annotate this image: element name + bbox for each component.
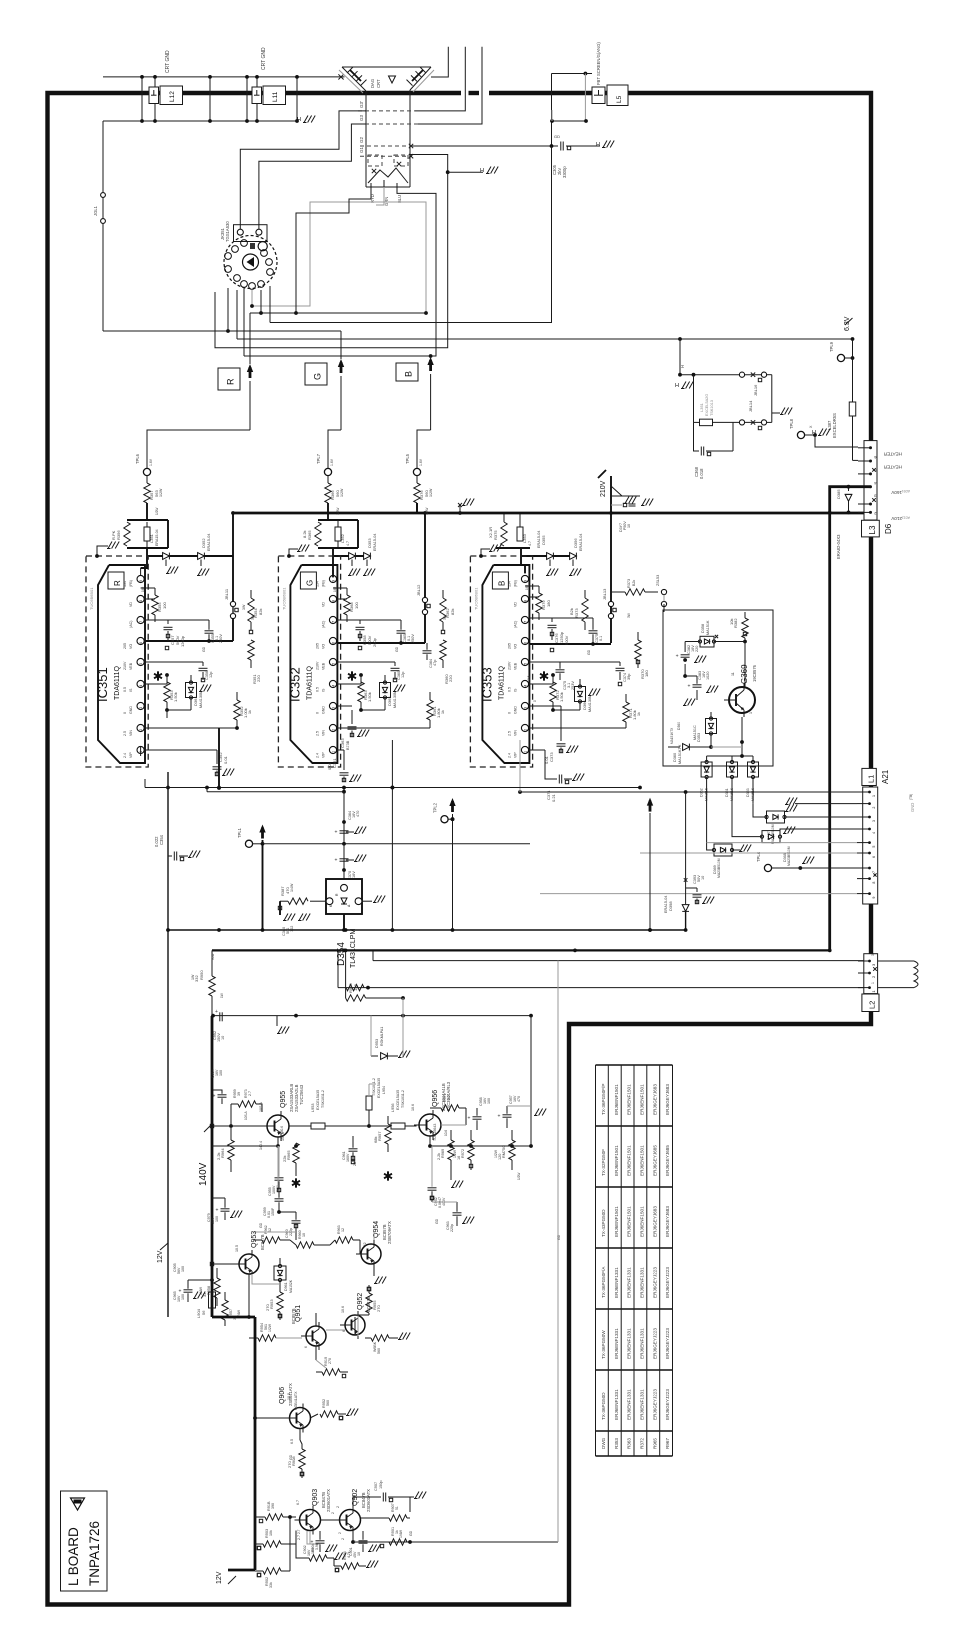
svg-text:ERJ6GEYJ223: ERJ6GEYJ223 (665, 1328, 670, 1359)
svg-text:TDA6111Q: TDA6111Q (498, 665, 505, 700)
A21 pin6 wire (640, 852, 857, 854)
svg-text:ERJ6ENF1501: ERJ6ENF1501 (627, 1084, 632, 1115)
svg-text:ERJ6GEYJ685: ERJ6GEYJ685 (665, 1145, 670, 1176)
svg-text:205: 205 (123, 643, 127, 649)
svg-text:Q955: Q955 (280, 1091, 287, 1108)
connector L1 box (862, 768, 876, 785)
L12 filter (141, 77, 143, 121)
svg-text:220: 220 (448, 675, 453, 682)
inductor L904 56 (209, 1292, 216, 1308)
IC352 pins (329, 575, 336, 582)
capacitor C368 0.018 (694, 422, 700, 451)
capacitor C372 (623, 503, 626, 506)
jumper ZR153 (661, 589, 666, 594)
resistor R382 10k (742, 618, 748, 638)
svg-text:7: 7 (332, 621, 336, 623)
svg-text:TPL4: TPL4 (756, 851, 761, 862)
svg-text:ERJ6GEYJ683: ERJ6GEYJ683 (652, 1206, 657, 1237)
A21 pin1 wire (520, 791, 857, 793)
svg-text:TUC6B6B01: TUC6B6B01 (89, 587, 94, 610)
capacitor C305 (552, 145, 559, 147)
svg-text:H: H (675, 383, 679, 389)
svg-text:EXCEL5A35: EXCEL5A35 (396, 1090, 400, 1110)
svg-text:8: 8 (524, 600, 528, 602)
diode pack D366g MA4130M (380, 683, 391, 698)
R amp peaking R356 L351 (127, 519, 168, 521)
svg-text:JBL14: JBL14 (748, 400, 753, 412)
wire D354 ref (343, 883, 345, 886)
left column wire x168 (167, 772, 169, 1317)
transistor Q956 (419, 1114, 441, 1136)
210V bus wire (233, 512, 871, 515)
svg-text:C373: C373 (549, 752, 554, 762)
shunt regulator D354 TL431CLPM (326, 879, 362, 914)
svg-text:0.21: 0.21 (551, 793, 556, 802)
svg-text:3: 3 (871, 954, 875, 956)
svg-text:100: 100 (181, 1266, 185, 1272)
svg-text:MA4130M: MA4130M (393, 691, 397, 708)
svg-text:6.3V: 6.3V (844, 316, 851, 331)
svg-text:ERJ6ENF1501: ERJ6ENF1501 (640, 1084, 645, 1115)
resistor R361 1.80k (337, 727, 430, 729)
svg-text:100: 100 (181, 1294, 185, 1300)
resistor R355 (152, 595, 158, 615)
resistor R357 (146, 476, 148, 483)
svg-text:D353: D353 (367, 538, 372, 548)
capacitor C357 (144, 619, 168, 621)
resistor R96B 560 (371, 1335, 389, 1341)
svg-text:RM75C: RM75C (502, 1145, 506, 1158)
svg-text:FBT SCREEN/G(ANG): FBT SCREEN/G(ANG) (596, 42, 601, 85)
svg-text:(AC): (AC) (321, 621, 325, 628)
video feed vertical x392 (391, 740, 393, 930)
svg-text:10.6: 10.6 (444, 1130, 448, 1136)
svg-text:R375: R375 (493, 530, 498, 540)
svg-text:JBL13: JBL13 (602, 588, 607, 600)
diode D353 ERA15-04 (333, 555, 367, 557)
svg-text:12p: 12p (401, 672, 405, 678)
svg-text:TPL8: TPL8 (789, 418, 794, 429)
svg-text:L11: L11 (272, 91, 279, 102)
svg-text:Q903: Q903 (312, 1489, 319, 1506)
svg-text:ERA15-04: ERA15-04 (207, 533, 211, 551)
svg-text:D365: D365 (387, 696, 392, 706)
svg-text:1.6V: 1.6V (149, 458, 153, 466)
transistor Q906 (290, 1408, 311, 1429)
svg-text:1k: 1k (637, 712, 641, 716)
svg-text:2SD601ATX: 2SD601ATX (366, 1489, 371, 1512)
svg-text:Q952: Q952 (357, 1293, 364, 1310)
wire VEB pin6 G (337, 642, 425, 644)
svg-text:MA4130M: MA4130M (199, 691, 203, 708)
resistor R91B 390 (265, 1514, 283, 1520)
svg-text:16: 16 (457, 1156, 461, 1160)
capacitor C965 (184, 1289, 193, 1291)
svg-text:1W: 1W (220, 993, 224, 998)
resistor R354 82k (248, 598, 254, 622)
svg-text:1k: 1k (441, 710, 445, 714)
svg-text:6: 6 (304, 1346, 308, 1348)
resistor R368 (344, 595, 350, 615)
svg-text:8: 8 (332, 600, 336, 602)
svg-text:GD: GD (587, 649, 591, 655)
svg-text:2SB709ATX: 2SB709ATX (387, 1221, 392, 1244)
svg-text:L954: L954 (382, 1086, 386, 1094)
svg-text:GND: GND (513, 706, 517, 714)
svg-text:D398: D398 (668, 901, 673, 911)
svg-text:102: 102 (290, 926, 294, 932)
op-amp IC351 body TDA6111Q (98, 565, 145, 763)
svg-text:7: 7 (872, 871, 876, 873)
svg-text:+: + (676, 654, 679, 660)
svg-text:MA152K: MA152K (289, 1279, 293, 1293)
svg-text:+: + (354, 1540, 357, 1546)
wire rail 843 (263, 843, 531, 845)
wire G1 return (215, 155, 448, 348)
cathode electrodes (368, 155, 382, 166)
svg-text:ERJ6ENF1501: ERJ6ENF1501 (640, 1206, 645, 1237)
diode pack D367 (765, 811, 786, 823)
capacitor C907 150p feedback (353, 1497, 381, 1509)
svg-text:L953: L953 (311, 1104, 315, 1112)
svg-text:TPL5: TPL5 (405, 453, 410, 464)
svg-text:JGL1: JGL1 (93, 205, 98, 216)
svg-text:VEB: VEB (129, 662, 133, 670)
wire R to TPL6 (147, 430, 250, 469)
resistor R954 (258, 1335, 276, 1341)
svg-text:205: 205 (507, 643, 511, 649)
svg-text:B2k: B2k (569, 608, 574, 615)
svg-text:G3: G3 (359, 114, 364, 121)
svg-text:EXCEL5A35: EXCEL5A35 (316, 1090, 320, 1110)
svg-text:EXCEL5A2G: EXCEL5A2G (705, 394, 709, 416)
svg-text:7: 7 (524, 621, 528, 623)
210V feed drop G (424, 513, 426, 643)
wire pin9 G out (332, 565, 334, 577)
svg-text:1: 1 (872, 795, 876, 797)
svg-text:R969: R969 (441, 1149, 445, 1158)
extra junction dots rails (217, 928, 221, 932)
svg-text:2.7: 2.7 (447, 1095, 451, 1100)
svg-text:MA151KTX: MA151KTX (670, 727, 674, 744)
svg-text:TPL7: TPL7 (316, 453, 321, 464)
test point TPL9 (837, 354, 844, 361)
ground top of IC353 (481, 549, 490, 556)
svg-text:G3': G3' (359, 101, 364, 108)
capacitor C375b (589, 630, 598, 632)
svg-text:150p: 150p (379, 1481, 383, 1489)
svg-text:TUC6B6B01: TUC6B6B01 (473, 587, 478, 610)
heater 6.3V line (237, 338, 853, 340)
svg-text:TX-36PG50D: TX-36PG50D (601, 1392, 606, 1420)
svg-text:100: 100 (354, 602, 359, 609)
svg-text:ERJ6GEYJ223: ERJ6GEYJ223 (652, 1328, 657, 1359)
svg-text:B: B (404, 371, 414, 377)
svg-text:TDA6111Q: TDA6111Q (306, 665, 313, 700)
test point 417 (413, 468, 420, 475)
svg-text:MA4130M: MA4130M (588, 695, 592, 712)
svg-text:210V: 210V (890, 516, 902, 521)
wire C960 to base rail (254, 1231, 296, 1233)
svg-text:X2.1R: X2.1R (488, 527, 493, 538)
svg-text:160V: 160V (346, 1153, 350, 1162)
svg-text:90W: 90W (211, 953, 215, 960)
diode D953 (371, 1055, 378, 1057)
svg-text:(FB): (FB) (129, 580, 133, 587)
capacitor C963 (453, 1212, 462, 1214)
rail 930 (168, 929, 686, 931)
svg-text:TSK1011-2: TSK1011-2 (372, 1078, 376, 1096)
resistor R964 (228, 1140, 234, 1160)
svg-text:ERA15-04: ERA15-04 (579, 533, 583, 551)
svg-text:VIP: VIP (321, 752, 325, 758)
resistor R908 270 (299, 1449, 305, 1469)
resistor R363 1.50k with select mark (348, 674, 356, 679)
svg-text:470: 470 (517, 1096, 521, 1102)
diode D355 D356 ERA15-04 (521, 555, 573, 557)
svg-text:6: 6 (342, 1330, 346, 1332)
svg-text:9: 9 (139, 580, 143, 582)
svg-text:D358: D358 (701, 624, 705, 633)
wire cathode R row (250, 312, 426, 314)
svg-text:120: 120 (498, 1154, 502, 1160)
svg-text:1/2W: 1/2W (429, 488, 433, 497)
heater feed lines (373, 960, 864, 962)
svg-text:1/2W: 1/2W (425, 508, 429, 515)
svg-text:L BOARD: L BOARD (66, 1527, 81, 1586)
svg-text:1.6V: 1.6V (330, 458, 334, 466)
thick link A21 to L2 (869, 904, 872, 954)
base network Q955 (212, 1125, 267, 1127)
svg-text:CRT: CRT (376, 79, 381, 88)
svg-text:12: 12 (363, 1242, 367, 1246)
svg-text:VO: VO (321, 644, 325, 649)
wire G to TPL7 (328, 430, 341, 469)
svg-text:8.2k: 8.2k (302, 530, 307, 538)
svg-text:IC351: IC351 (95, 667, 110, 702)
test point 328 (324, 468, 331, 475)
svg-text:0.01: 0.01 (327, 761, 332, 770)
svg-text:ERJ6ENF1331: ERJ6ENF1331 (614, 1389, 619, 1420)
svg-text:1W: 1W (191, 974, 195, 980)
CRT neck (365, 91, 367, 187)
diode D953b (369, 1083, 376, 1085)
svg-text:4: 4 (332, 685, 336, 687)
cap C364 16V 470 (343, 792, 345, 885)
svg-text:1.6V: 1.6V (419, 458, 423, 466)
svg-text:R365: R365 (307, 530, 312, 540)
svg-text:C361: C361 (332, 758, 337, 768)
svg-text:VEB: VEB (513, 662, 517, 670)
svg-text:6: 6 (524, 642, 528, 644)
svg-text:165: 165 (333, 586, 337, 592)
svg-text:Q951: Q951 (295, 1305, 302, 1322)
svg-text:VD: VD (129, 602, 133, 607)
svg-text:ERJ6ENF1331: ERJ6ENF1331 (627, 1328, 632, 1359)
resistor R905 (341, 1563, 359, 1569)
svg-text:ERJ6GEYJ683: ERJ6GEYJ683 (665, 1084, 670, 1115)
svg-text:100: 100 (487, 1098, 491, 1104)
svg-text:2.5: 2.5 (315, 731, 319, 736)
wire G2 screen path (412, 145, 552, 147)
svg-text:1/4W: 1/4W (290, 883, 294, 892)
wires driver column (248, 1274, 250, 1317)
svg-text:2.7: 2.7 (248, 1091, 252, 1096)
alternate parts table (596, 1064, 673, 1066)
svg-text:RGKMLPA1: RGKMLPA1 (380, 1027, 384, 1046)
svg-text:H: H (680, 365, 685, 368)
svg-text:220p: 220p (450, 1224, 454, 1232)
svg-text:ERA82-04X3: ERA82-04X3 (836, 534, 841, 559)
cap C370 16V (340, 858, 349, 860)
svg-text:82k: 82k (258, 609, 263, 615)
outline dash segment where CRT wires cross (469, 91, 480, 95)
svg-text:0.5: 0.5 (123, 687, 127, 692)
svg-text:1/2W: 1/2W (494, 1149, 498, 1158)
svg-text:210V: 210V (507, 661, 511, 670)
wire cathode B path (397, 187, 436, 356)
diode pack D353 MA151C (706, 719, 717, 734)
svg-text:Q906: Q906 (279, 1387, 286, 1404)
svg-text:GND: GND (910, 803, 915, 812)
grid G3 dashed (358, 123, 418, 125)
svg-text:ERJ6ENF1501: ERJ6ENF1501 (640, 1145, 645, 1176)
svg-text:GD: GD (435, 1218, 439, 1224)
heater and grid stubs to FBT (431, 47, 448, 77)
svg-text:L12: L12 (169, 91, 176, 102)
svg-text:134: 134 (315, 581, 319, 587)
svg-text:3: 3 (139, 707, 143, 709)
svg-text:R.PK: R.PK (111, 530, 116, 540)
wire 160V stub (830, 487, 871, 513)
cathode wire weave below socket (252, 202, 426, 313)
svg-text:C354: C354 (159, 834, 164, 845)
svg-text:47p: 47p (433, 660, 437, 666)
svg-text:560: 560 (377, 1348, 381, 1354)
svg-text:(AC): (AC) (513, 621, 517, 628)
svg-text:6: 6 (332, 642, 336, 644)
svg-text:(FB): (FB) (513, 580, 517, 587)
capacitor D365 47p (423, 650, 432, 652)
svg-text:9: 9 (524, 580, 528, 582)
svg-text:RGB41ATX: RGB41ATX (294, 1391, 298, 1410)
svg-text:12V: 12V (157, 1250, 164, 1263)
svg-text:GD: GD (557, 1234, 561, 1240)
svg-text:560: 560 (326, 1400, 330, 1406)
svg-text:10.6: 10.6 (341, 1306, 345, 1313)
wires bottom cluster (289, 1517, 291, 1571)
ground top of IC352 (289, 549, 298, 556)
capacitor C365 (397, 630, 406, 632)
svg-text:TX-43PG50D: TX-43PG50D (601, 1209, 606, 1237)
svg-text:10k: 10k (729, 619, 734, 625)
svg-text:D961: D961 (284, 1282, 288, 1291)
svg-text:4.7: 4.7 (528, 541, 532, 546)
svg-text:R950: R950 (199, 970, 204, 980)
svg-text:A012: A012 (902, 516, 910, 520)
svg-text:TUC6B6B01: TUC6B6B01 (281, 587, 286, 610)
svg-text:ERJ6GEYJ223: ERJ6GEYJ223 (665, 1389, 670, 1420)
svg-text:D355: D355 (541, 535, 546, 545)
svg-text:G: G (305, 580, 314, 586)
L11 filter (246, 77, 248, 121)
diode pack D961 (274, 1266, 286, 1280)
emitter resistor network Q956 (429, 1136, 431, 1146)
capacitor C354 0.022 (168, 855, 172, 857)
capacitor C376 (529, 617, 552, 619)
board outline frame (48, 93, 872, 1605)
A21 pin9 wire (540, 893, 857, 895)
svg-text:R: R (226, 378, 236, 385)
svg-text:2.5: 2.5 (507, 731, 511, 736)
svg-text:2.2k: 2.2k (216, 1152, 221, 1160)
heater choke L387 (852, 339, 854, 402)
resistor R379 180 (536, 593, 542, 613)
grid G1 dashed (360, 155, 412, 157)
resistor R387 470 (310, 900, 326, 902)
svg-text:R967: R967 (665, 1438, 670, 1449)
resistor R901 1k (389, 1539, 407, 1545)
svg-text:R: R (113, 580, 122, 586)
capacitor C955 (275, 1177, 284, 1179)
svg-text:160V: 160V (890, 490, 902, 495)
svg-text:+: + (213, 1094, 216, 1100)
CRT funnel DAG (342, 66, 431, 68)
svg-text:ERJ6GEYJ223: ERJ6GEYJ223 (652, 1389, 657, 1420)
test point TPL1 and arrow (245, 840, 252, 847)
resistor R371 1.80k (529, 727, 626, 729)
jumper JGL1 (102, 121, 104, 192)
svg-text:+: + (498, 1114, 501, 1120)
svg-text:HEATER: HEATER (883, 465, 902, 470)
svg-text:R373: R373 (627, 579, 631, 588)
svg-text:39: 39 (237, 1092, 241, 1096)
connector A21 (863, 787, 878, 904)
210V feed drop R (232, 513, 234, 641)
ferrite L954 (366, 1096, 372, 1110)
svg-text:2.5: 2.5 (123, 731, 127, 736)
capacitor C356 12p (202, 662, 204, 666)
svg-text:ERJ6GEYJ683: ERJ6GEYJ683 (665, 1206, 670, 1237)
svg-text:140V: 140V (198, 1162, 209, 1186)
svg-text:ERJ6ENF1501: ERJ6ENF1501 (627, 1206, 632, 1237)
resistor R904 (309, 1555, 327, 1561)
resistor R919 270 (322, 1369, 340, 1375)
diode pack D358 MA151K (698, 636, 715, 647)
svg-text:2: 2 (139, 729, 143, 731)
capacitor C374 39p (529, 661, 620, 663)
svg-text:D364: D364 (193, 696, 198, 706)
capacitor C962 (428, 1187, 437, 1189)
svg-text:5: 5 (524, 663, 528, 665)
12V label bottom (228, 1576, 236, 1584)
svg-text:2: 2 (341, 1538, 345, 1540)
svg-text:MA23B510M: MA23B510M (717, 858, 721, 878)
svg-text:TNPA1726: TNPA1726 (87, 1521, 102, 1586)
svg-text:R972: R972 (461, 1149, 465, 1158)
svg-text:GRN: GRN (384, 197, 389, 206)
capacitor C383 (693, 684, 702, 686)
transistor Q951 (306, 1326, 326, 1346)
emitter Q955 to 140V (277, 1137, 279, 1146)
svg-text:5: 5 (139, 663, 143, 665)
svg-text:ERJ6ENF1501: ERJ6ENF1501 (627, 1145, 632, 1176)
svg-text:3: 3 (524, 707, 528, 709)
svg-text:11: 11 (731, 672, 735, 676)
svg-text:16V: 16V (352, 871, 356, 878)
svg-text:3: 3 (332, 707, 336, 709)
rail 1542 out (353, 1541, 558, 1543)
